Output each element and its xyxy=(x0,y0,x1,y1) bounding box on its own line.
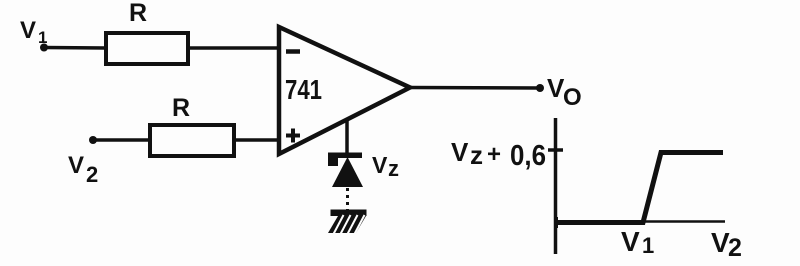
svg-text:O: O xyxy=(563,84,582,111)
wire V2 to R2 xyxy=(93,138,150,142)
svg-text:V: V xyxy=(20,17,36,44)
svg-text:R: R xyxy=(129,0,147,27)
svg-text:R: R xyxy=(172,94,190,122)
svg-text:741: 741 xyxy=(285,74,322,105)
op-amp U1 (741) triangle xyxy=(279,27,410,154)
op-amp non-inverting input symbol (plus) xyxy=(286,134,300,138)
svg-text:V: V xyxy=(68,152,84,179)
zener diode D1 anode triangle xyxy=(332,157,363,187)
graph y-axis xyxy=(554,118,558,254)
graph tick at Vz+0,6 level xyxy=(548,148,563,152)
svg-text:2: 2 xyxy=(728,234,742,262)
svg-text:1: 1 xyxy=(642,233,654,258)
wire R2 to op-amp non-inverting input xyxy=(234,138,281,142)
svg-text:2: 2 xyxy=(86,162,98,187)
svg-text:V: V xyxy=(372,152,388,178)
svg-text:z: z xyxy=(470,140,483,170)
wire op-amp to zener D1 xyxy=(345,120,349,155)
ground symbol xyxy=(328,210,367,235)
wire V1 to R1 xyxy=(44,46,106,50)
svg-text:V: V xyxy=(451,137,469,167)
transfer curve xyxy=(556,153,723,223)
curve start nub on axis xyxy=(555,217,558,228)
wire op-amp output to Vo xyxy=(410,86,540,90)
node Vo terminal dot xyxy=(536,84,544,92)
svg-text:V: V xyxy=(621,226,640,257)
node V1 terminal dot xyxy=(40,44,48,52)
op-amp inverting input symbol (minus) xyxy=(286,49,300,54)
wire R1 to op-amp inverting input xyxy=(188,46,280,50)
graph x-axis xyxy=(556,220,725,223)
resistor R1 xyxy=(106,33,188,64)
resistor R2 xyxy=(150,125,234,156)
zener diode D1 cathode bar xyxy=(328,153,362,167)
node V2 terminal dot xyxy=(89,136,97,144)
svg-text:+: + xyxy=(487,141,501,168)
svg-text:0,6: 0,6 xyxy=(510,140,546,172)
dashed wire zener to ground xyxy=(346,188,349,210)
svg-text:z: z xyxy=(388,156,399,181)
